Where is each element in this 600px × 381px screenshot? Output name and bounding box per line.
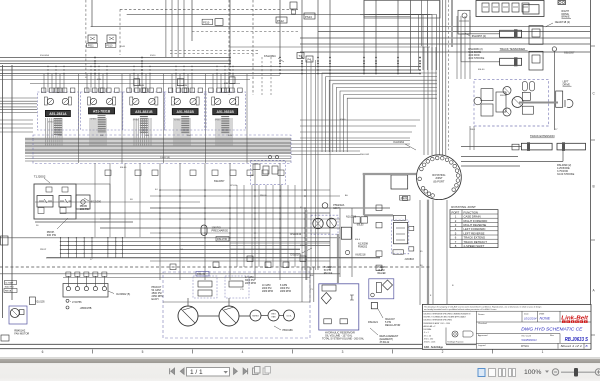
reservoir internals (322, 285, 336, 291)
pump control valves 1 (193, 276, 217, 298)
svg-text:REGULATOR: REGULATOR (385, 324, 401, 327)
control valve section 5 (A51-0831B) (205, 92, 246, 130)
svg-text:DWG HYD SCHEMATIC CE: DWG HYD SCHEMATIC CE (521, 327, 583, 332)
svg-text:A51-0831B: A51-0831B (217, 110, 235, 114)
right rail vertical (553, 51, 555, 130)
nav prev page button (180, 368, 184, 374)
svg-text:PS11: PS11 (88, 45, 95, 48)
svg-text:A51-8831B: A51-8831B (135, 110, 153, 114)
svg-text:Sheet 1 of 1: Sheet 1 of 1 (561, 344, 583, 348)
svg-text:.XXX ± .030: .XXX ± .030 (424, 339, 434, 341)
page number box (187, 368, 230, 377)
svg-text:300 PSI: 300 PSI (47, 233, 57, 237)
svg-text:FAN MOTOR: FAN MOTOR (14, 333, 29, 336)
svg-text:NONE: NONE (540, 317, 551, 321)
brake component top edge (558, 1, 566, 5)
svg-text:A51-7831B: A51-7831B (93, 109, 111, 113)
svg-text:1 / 1: 1 / 1 (190, 369, 203, 376)
svg-text:KSL0054: KSL0054 (40, 55, 50, 57)
svg-text:RSL0162: RSL0162 (360, 154, 370, 156)
svg-text:ANGULAR ± 1°: ANGULAR ± 1° (424, 325, 437, 328)
svg-text:1: 1 (542, 350, 544, 354)
solenoid valve in T1J2002 right (59, 196, 71, 208)
svg-text:PROP: PROP (40, 249, 47, 251)
left drive small motors (503, 87, 511, 95)
hose bundle dashed enclosure (33, 135, 291, 164)
drawn checked approved rows (476, 321, 591, 323)
svg-text:KPL03: KPL03 (230, 185, 237, 187)
border bottom inner line (0, 343, 591, 345)
track tensioner cylinder 1 (500, 30, 522, 37)
pdf viewer toolbar (0, 357, 600, 381)
svg-text:10/2/2014: 10/2/2014 (524, 317, 537, 321)
svg-text:26L0: 26L0 (470, 129, 476, 131)
svg-text:2065 RPM: 2065 RPM (245, 283, 256, 285)
svg-text:DWN: DWN (539, 314, 545, 316)
svg-text:REFERENCE ANSI Y14.5 - 1994: REFERENCE ANSI Y14.5 - 1994 (424, 322, 450, 325)
svg-text:3000 PSI: 3000 PSI (245, 280, 255, 282)
hanging port box 18 (177, 79, 184, 86)
svg-text:3: 3 (342, 350, 344, 354)
pressure switch PS10 (107, 35, 116, 43)
svg-text:2SL02: 2SL02 (401, 198, 408, 200)
zoom out button (552, 369, 558, 375)
left vertical rails (2, 65, 4, 318)
page copy icon 2 (263, 368, 269, 375)
left drive valves (481, 89, 493, 101)
gear pump swing (250, 310, 261, 321)
svg-text:B: B (586, 344, 588, 348)
pump suction lines (187, 298, 189, 306)
pressure switch PS12 (276, 17, 287, 23)
pilot relief left of bank (458, 10, 470, 34)
pilot sub-circuit box center (250, 160, 285, 184)
pilot manifold outer enclosure (34, 184, 110, 219)
zoom slider knob (574, 368, 578, 377)
pilot manifold T1J2002 outline (34, 184, 76, 219)
small boxes above pumps (170, 264, 176, 270)
svg-text:4: 4 (242, 350, 244, 354)
svg-text:SPEED: SPEED (47, 121, 54, 123)
svg-text:6SJ1000: 6SJ1000 (91, 200, 102, 204)
wire dashed vertical x85.9 (85, 0, 87, 78)
svg-text:B: B (593, 185, 595, 189)
title block disclaimer text (422, 310, 591, 312)
svg-text:COOL: COOL (286, 316, 291, 318)
pump group enclosure (163, 272, 310, 338)
wire bottom right risers (419, 200, 421, 305)
svg-text:.XXXX ± .0005: .XXXX ± .0005 (424, 342, 436, 344)
svg-text:CEAD718 (2): CEAD718 (2) (555, 20, 571, 24)
fan circuit labels (5, 281, 17, 285)
nested wire loops lower set (322, 73, 437, 152)
bypass regulator valve (371, 303, 377, 309)
svg-text:RBOA: RBOA (5, 290, 12, 293)
return filter assembly (369, 279, 394, 299)
bus junction dots (94, 57, 96, 59)
reservoir strainer diamond (321, 293, 331, 304)
svg-text:UNLESS OTHERWISE SPECIFIED: UNLESS OTHERWISE SPECIFIED (424, 320, 453, 322)
parking brake valve bank top-right (476, 1, 544, 17)
hose bundle manifold horizontal lines (25, 137, 291, 139)
svg-text:Legend: Legend (478, 345, 486, 347)
pressure switch PS10-41 top (202, 19, 213, 24)
wire vertical drops dashed (228, 0, 230, 95)
svg-text:8 GPM: 8 GPM (280, 285, 287, 287)
left drive motor block enclosure (474, 79, 549, 126)
port box track ext (512, 144, 519, 150)
svg-text:100%: 100% (524, 369, 541, 376)
wire bus center horizontals (35, 221, 133, 223)
svg-text:COL.01: COL.01 (197, 273, 206, 276)
hose bundle lower lines (25, 155, 291, 157)
border bottom outer line (0, 348, 591, 350)
wire dashed horizontal y9.3 (120, 8, 300, 10)
track extension cylinder 1 (521, 143, 552, 150)
svg-text:PBJ0186: PBJ0186 (283, 329, 294, 332)
svg-text:KBL05: KBL05 (500, 95, 507, 97)
left drive filter capsules (522, 81, 527, 91)
thick gray vertical x452 (451, 0, 453, 47)
port box 26 (409, 247, 414, 251)
toolbar icons svg (0, 357, 600, 380)
svg-text:17 GPM: 17 GPM (245, 277, 254, 279)
wire vertical triplet to joint (439, 0, 441, 155)
svg-text:P5M202: P5M202 (358, 246, 368, 249)
fan motor assembly (9, 306, 27, 324)
svg-text:6SL0057 (2): 6SL0057 (2) (472, 34, 486, 38)
svg-text:6SL00: 6SL00 (478, 69, 485, 71)
svg-text:.X ± .1: .X ± .1 (424, 332, 429, 334)
main pump 2 (219, 306, 239, 326)
svg-text:3TJ0142: 3TJ0142 (380, 341, 390, 344)
port boxes T1J2002 (38, 208, 44, 214)
border right line (590, 0, 592, 349)
svg-text:.XX ± .06: .XX ± .06 (424, 336, 431, 338)
rotating joint ports (435, 156, 439, 160)
svg-text:FHS01: FHS01 (521, 345, 529, 348)
svg-text:TRACK TENSIONER: TRACK TENSIONER (500, 47, 526, 51)
svg-text:UNLESS OTHERWISE SPECIFIED DIM: UNLESS OTHERWISE SPECIFIED DIMENSIONS AR… (424, 313, 471, 316)
left drive solenoid valves (522, 92, 530, 100)
port label boxes row mid (105, 170, 111, 176)
pump control valves 2 (225, 276, 249, 298)
hanging port box 17 (134, 79, 140, 86)
title block left column (475, 311, 477, 349)
svg-text:PS12: PS12 (277, 19, 284, 23)
valve pair 6SL03 (354, 217, 361, 223)
svg-text:GOL3B: GOL3B (394, 252, 402, 254)
svg-text:ENG: ENG (271, 314, 276, 316)
check valve Y2L0105 (29, 297, 35, 305)
svg-text:RSL0433: RSL0433 (290, 232, 301, 236)
svg-text:KSL0: KSL0 (340, 119, 346, 121)
svg-text:34.00 STROKE: 34.00 STROKE (557, 173, 575, 176)
control valve section 1 (A51-2831A) (37, 92, 78, 130)
gear pump eng fan (268, 310, 279, 321)
svg-text:10 GPM: 10 GPM (262, 285, 271, 287)
svg-text:TOTAL SYSTEM VOLUME - 260 GAL: TOTAL SYSTEM VOLUME - 260 GAL (322, 338, 365, 341)
svg-text:DSL1730: DSL1730 (217, 238, 228, 241)
svg-text:A2B: A2B (183, 84, 188, 87)
svg-text:2000 PSI: 2000 PSI (262, 288, 272, 290)
svg-text:2-SPEED SHIFT: 2-SPEED SHIFT (464, 244, 485, 248)
svg-text:RSL0421: RSL0421 (368, 321, 379, 324)
swing brake valve (341, 227, 351, 239)
layout continuous icon (489, 369, 496, 377)
fan-in lines to rotating joint (300, 119, 420, 121)
hose drop column group 1 (45, 118, 47, 146)
hanging port box 19 (229, 77, 235, 84)
svg-text:K8J0218: K8J0218 (356, 254, 366, 257)
label DSL1730 (216, 237, 229, 242)
solenoid valve in T1J2002 left (37, 196, 53, 208)
mid band junction dots (159, 189, 161, 191)
thick case drain bus (363, 173, 417, 175)
svg-text:PS13: PS13 (305, 15, 312, 19)
wire corner top-left (91, 0, 93, 27)
svg-text:6SL0057: 6SL0057 (564, 51, 575, 55)
svg-text:CAD - Solid Edge: CAD - Solid Edge (424, 346, 444, 349)
svg-text:ROTATING JOINT: ROTATING JOINT (451, 205, 476, 209)
rotating joint body (417, 155, 462, 200)
title block outline (422, 304, 591, 349)
wire bus left edge to sections (0, 97, 37, 99)
svg-text:Approved: Approved (478, 334, 488, 337)
right column verticals below bank (456, 16, 458, 79)
svg-text:KS10: KS10 (150, 55, 156, 57)
pressure switch PS13 (304, 13, 315, 19)
svg-text:JGL02 (8): JGL02 (8) (160, 157, 170, 159)
dashed drops right of section 5 (261, 57, 263, 95)
left rail horizontals lower (0, 119, 33, 121)
svg-text:3000 PSI: 3000 PSI (5, 287, 14, 289)
projection symbol cell (445, 328, 447, 345)
left edge small component (1, 236, 9, 245)
relief valve box tensioner upper (529, 26, 543, 45)
svg-text:SWING: SWING (252, 316, 259, 318)
bundle exit lines to rotating joint (291, 140, 410, 142)
svg-text:RB.J0633 S: RB.J0633 S (565, 337, 589, 343)
main pump 1 (178, 306, 198, 326)
wire bus upper-right horizontals (318, 31, 590, 33)
relief valve box tensioner lower (529, 51, 543, 70)
svg-text:6SJ0: 6SJ0 (120, 46, 126, 48)
svg-text:(8) PORT: (8) PORT (433, 179, 444, 183)
control valve section 3 (A51-8831B) (123, 92, 165, 130)
accumulator DSL1730 (201, 225, 207, 236)
svg-text:PS10: PS10 (203, 21, 210, 24)
nav first page button (170, 368, 175, 374)
svg-text:RELIEF: RELIEF (378, 272, 387, 275)
svg-text:Y2L0105: Y2L0105 (35, 302, 45, 304)
svg-text:2080 RPM: 2080 RPM (262, 291, 273, 293)
bottom area verticals (67, 258, 69, 283)
svg-text:1800 PSI: 1800 PSI (280, 288, 290, 290)
svg-text:are hereby formatted result is: are hereby formatted result is prohibite… (424, 308, 497, 311)
layout single page icon (active) (478, 369, 485, 377)
node circle right (552, 47, 556, 51)
svg-text:Drawn: Drawn (478, 313, 485, 316)
svg-text:6SL05: 6SL05 (120, 167, 127, 169)
svg-text:120 ?: 120 ? (333, 207, 340, 210)
svg-text:This drawing is the property o: This drawing is the property of Link-Bel… (424, 305, 541, 308)
port box P4 (306, 56, 313, 62)
svg-text:ISO Level: ISO Level (522, 335, 532, 337)
svg-text:W168600313: W168600313 (522, 338, 537, 342)
dashed vertical x448 (448, 0, 450, 150)
wire verticals top center (165, 0, 167, 57)
left vertical bundle to bottom (301, 60, 303, 270)
svg-text:A51-9831B: A51-9831B (177, 110, 195, 114)
page copy icon 1 (253, 368, 259, 375)
label 28RD1HB (66, 306, 69, 309)
brake valve P5M202A (322, 203, 328, 209)
swing pump motor pair enclosure (311, 215, 338, 234)
svg-text:2080 RPM: 2080 RPM (280, 291, 291, 293)
svg-text:INCHES. TOLERANCES BELOW ARE: INCHES. TOLERANCES BELOW ARE APPLICABLE (424, 316, 467, 319)
wire verticals center (423, 47, 425, 155)
long verticals through sections (78, 74, 80, 163)
wire horizontal y14.7 (127, 14, 430, 16)
svg-text:6SL03: 6SL03 (357, 224, 364, 226)
zoom slider track (561, 371, 595, 373)
svg-text:6SL0057: 6SL0057 (214, 179, 225, 183)
upper manifold box top-right (364, 1, 440, 19)
svg-text:6SL0: 6SL0 (355, 239, 361, 241)
left drive motor circles (512, 97, 523, 108)
control valve section 2 (A51-7831B) (81, 92, 123, 130)
wire dashed horizontals y50 (170, 50, 260, 52)
track extension cylinder 2 (557, 143, 586, 150)
long verticals to bottom (159, 163, 161, 280)
wire bus center verticals (60, 237, 62, 258)
nav next page button (234, 368, 238, 374)
svg-text:Date: Date (524, 313, 529, 316)
svg-text:DECIMAL: DECIMAL (424, 328, 432, 331)
label COL.01 (196, 272, 209, 277)
layout two-page continuous icon (509, 369, 512, 377)
svg-text:PRECHARGE: PRECHARGE (212, 229, 229, 233)
port box T4 (297, 53, 304, 59)
layout two-page icon (499, 369, 502, 377)
svg-text:A1B: A1B (140, 84, 145, 87)
hydraulic reservoir box (319, 284, 359, 330)
label LTJ0756 (66, 299, 69, 302)
svg-text:CLY6AP: CLY6AP (5, 282, 14, 285)
svg-text:D2J0602 (5): D2J0602 (5) (116, 293, 130, 296)
ladder junction dots (60, 237, 61, 238)
svg-text:J1X0803: J1X0803 (404, 258, 414, 261)
svg-text:T1J2002: T1J2002 (34, 175, 46, 179)
left drive output shaft thick line (519, 102, 558, 104)
svg-text:LTJ0756: LTJ0756 (72, 301, 82, 304)
wires to track extension (461, 146, 521, 148)
long dashed wire bottom (0, 266, 430, 268)
swing pump circle (313, 218, 323, 228)
svg-text:Checked: Checked (478, 323, 487, 325)
reducing valve 6SJ1000 (76, 195, 90, 209)
zoom in button (595, 369, 600, 375)
svg-text:DSL05: DSL05 (300, 245, 307, 247)
svg-text:41B: 41B (97, 79, 101, 81)
svg-text:KSL0094: KSL0094 (264, 54, 276, 58)
gauge port manifold D2J0602 (63, 284, 108, 298)
track tensioner cylinder 2 (500, 58, 522, 65)
mid band verticals (94, 163, 96, 237)
thick suction bus lines (305, 210, 307, 280)
control valve section 4 (A51-9831B) (164, 92, 206, 130)
bottom left corner label box (1, 335, 9, 341)
svg-text:A3B: A3B (224, 82, 229, 85)
svg-text:6: 6 (42, 350, 44, 354)
central risers x318 x330 (317, 57, 319, 208)
pump shaft line (198, 315, 219, 317)
svg-text:T4: T4 (299, 54, 303, 58)
port box 33 (403, 196, 408, 200)
svg-text:KAJ0162: KAJ0162 (394, 140, 405, 144)
svg-text:DRIVE: DRIVE (563, 83, 571, 86)
swing motor circle (327, 218, 337, 228)
solenoid valve GOL2B (394, 215, 406, 220)
center riser horizontals (230, 242, 330, 244)
svg-text:FAN: FAN (272, 316, 276, 319)
svg-text:PS10: PS10 (106, 45, 113, 48)
valve left of rotating joint (391, 175, 408, 189)
svg-text:2: 2 (442, 350, 444, 354)
wire bus top horizontal (0, 57, 230, 59)
svg-text:PBL05: PBL05 (260, 195, 267, 197)
svg-text:Third Angle Projection: Third Angle Projection (447, 341, 464, 344)
bottom horizontals (63, 277, 310, 279)
left drive charge pump (474, 97, 482, 105)
svg-text:5: 5 (142, 350, 144, 354)
small port boxes column x377 (376, 205, 382, 211)
svg-text:EACH: EACH (152, 298, 159, 301)
nav last page button (243, 368, 247, 374)
bus drop junction dots (47, 66, 48, 67)
svg-text:A51-2831A: A51-2831A (49, 112, 67, 116)
center riser bundle verticals (236, 185, 238, 267)
right drive brake valve (523, 5, 539, 14)
svg-text:TRACK EXTENSION: TRACK EXTENSION (530, 134, 555, 138)
nested wire loops right of center (360, 15, 437, 71)
GOL3B tall enclosure (392, 220, 409, 254)
gauge circle K8J0218 (345, 250, 349, 254)
pressure switch PS11 (88, 35, 97, 43)
wire bus center extra horizontals (160, 189, 330, 191)
gear reducer symbol (556, 91, 563, 107)
wire vertical drops from top edge (229, 0, 231, 65)
svg-text:4.00 STROKE: 4.00 STROKE (468, 57, 484, 60)
port box 24 (409, 226, 414, 230)
gear pump cool (284, 310, 295, 321)
svg-text:.28RD1HB: .28RD1HB (80, 307, 92, 310)
wire drops to valve row (43, 74, 45, 92)
